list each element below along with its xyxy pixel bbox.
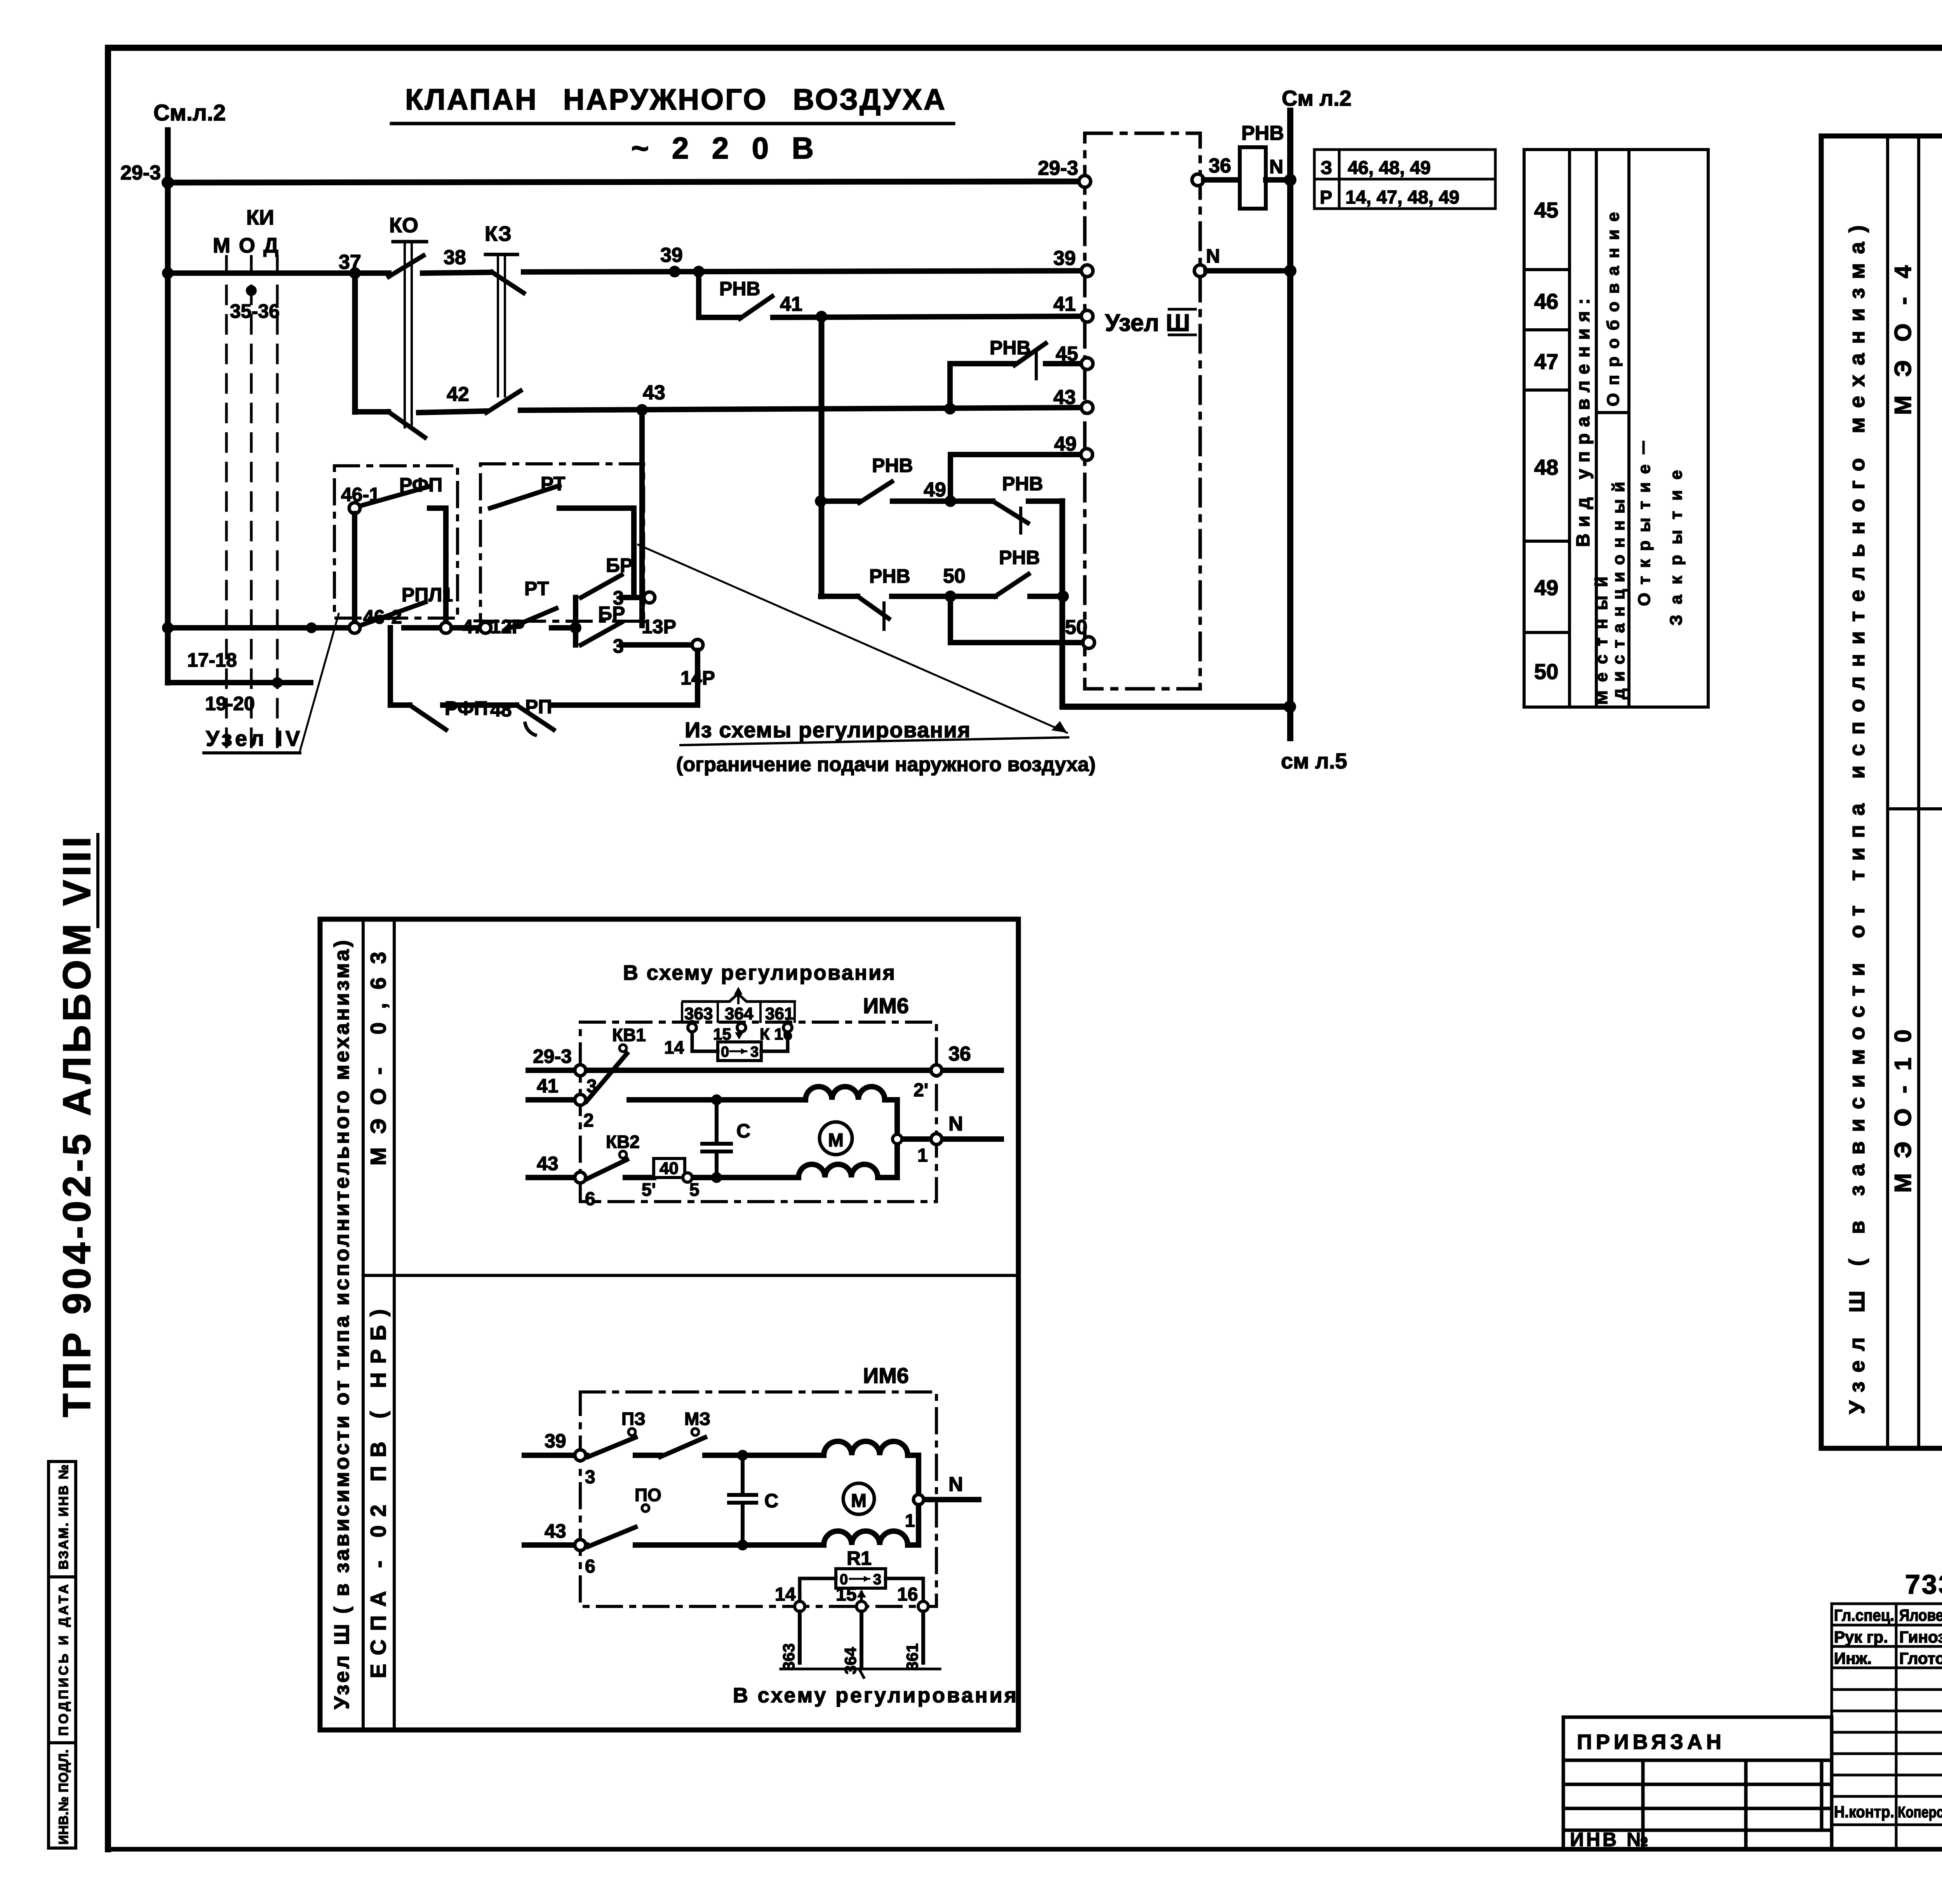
- svg-text:14: 14: [664, 1037, 684, 1057]
- svg-text:см л.5: см л.5: [1281, 749, 1347, 773]
- wire 49 circle row: [950, 452, 1087, 457]
- label Узел III: [1105, 310, 1190, 336]
- label КИ: [246, 206, 274, 229]
- wire lower tap rail: [168, 680, 311, 685]
- junction dot 45-43: [944, 403, 956, 415]
- junction dot mid rung: [306, 622, 317, 633]
- terminal 45 circle: [1081, 358, 1093, 369]
- svg-text:19-20: 19-20: [205, 693, 255, 714]
- label 15 ЕСПА: [836, 1584, 856, 1605]
- label М МЭО063: [828, 1130, 844, 1151]
- label 3 МЭО063: [586, 1076, 597, 1097]
- junction dot bus 46-2: [162, 622, 174, 634]
- label 3 ЕСПА: [585, 1467, 595, 1488]
- margin table: [49, 1462, 76, 1848]
- contact РНВ blade 45: [1015, 343, 1046, 365]
- junction dot rung left: [162, 267, 174, 279]
- svg-text:N: N: [1206, 245, 1220, 267]
- label 50 cell: [1534, 659, 1558, 684]
- terminal 46-2 circle: [349, 622, 360, 633]
- contact РТ lower blade: [505, 608, 556, 630]
- svg-text:2: 2: [583, 1110, 594, 1131]
- label 2prime МЭО063: [914, 1080, 928, 1101]
- wire top coil link МЭО063: [717, 1100, 897, 1139]
- svg-text:43: 43: [643, 381, 665, 404]
- wire bottom to sheet5: [1063, 704, 1290, 710]
- wire 50 lower corner: [948, 596, 953, 643]
- label КВ2: [606, 1132, 640, 1152]
- label РНВ 45: [990, 337, 1031, 359]
- box right divider: [1888, 807, 1942, 810]
- svg-text:13Р: 13Р: [642, 616, 676, 638]
- svg-text:5': 5': [642, 1179, 656, 1200]
- svg-text:35-36: 35-36: [230, 300, 280, 322]
- svg-text:ПЗ: ПЗ: [621, 1409, 646, 1429]
- svg-text:49: 49: [1534, 575, 1558, 600]
- terminal 47 circle: [440, 622, 451, 633]
- label 16 ЕСПА: [897, 1584, 918, 1605]
- label см л.5: [1281, 749, 1347, 773]
- svg-text:39: 39: [1053, 247, 1076, 270]
- svg-text:ИНВ.№ ПОДЛ.: ИНВ.№ ПОДЛ.: [56, 1749, 71, 1845]
- label 48: [490, 699, 512, 721]
- label 48 cell: [1534, 455, 1558, 479]
- contact РП arrow: [517, 705, 553, 735]
- svg-text:36: 36: [948, 1043, 971, 1065]
- label 46,48,49: [1348, 158, 1431, 178]
- svg-text:КВ1: КВ1: [612, 1025, 646, 1045]
- svg-text:РПЛ1: РПЛ1: [402, 584, 453, 606]
- svg-text:(ограничение подачи наружного: (ограничение подачи наружного воздуха): [676, 753, 1096, 776]
- svg-text:40: 40: [660, 1159, 679, 1178]
- svg-text:38: 38: [444, 246, 466, 269]
- terminal 13Р circle: [644, 592, 655, 603]
- svg-text:С: С: [736, 1120, 750, 1142]
- wire motor right ЕСПА: [919, 1500, 979, 1545]
- junction dot 41: [816, 311, 827, 322]
- label КВ1: [612, 1025, 646, 1045]
- arrow into resistor МЭО063: [735, 1023, 743, 1040]
- contact РНВ blade 50b: [995, 574, 1028, 596]
- svg-text:15: 15: [713, 1025, 731, 1043]
- dashed line М: [225, 256, 228, 754]
- svg-text:7333 - 09: 7333 - 09: [1905, 1569, 1942, 1599]
- contact РНВ blade 41: [740, 296, 772, 319]
- label 13Р: [642, 616, 676, 638]
- wire 43 row МЭО063: [528, 1175, 717, 1180]
- wire motor to N МЭО063: [897, 1136, 1001, 1142]
- terminal 6 circle ЕСПА: [575, 1540, 586, 1550]
- leader из схемы diagonal: [638, 545, 1067, 733]
- label 17-18: [187, 649, 237, 671]
- label МЭО-0,63: [366, 952, 390, 1165]
- svg-text:36: 36: [1209, 155, 1231, 177]
- contact КЗ lower blade: [486, 391, 520, 413]
- svg-text:БР: БР: [598, 603, 625, 624]
- label МОД: [213, 234, 287, 257]
- label РНВ 49b: [1002, 473, 1043, 495]
- label 46-2: [363, 606, 402, 628]
- wire terminal stubs ЕСПА: [800, 1611, 923, 1667]
- label БР upper: [606, 554, 633, 576]
- coil top МЭО063: [806, 1087, 885, 1100]
- junction dot 50 right: [1057, 591, 1069, 602]
- svg-text:Яловецкий: Яловецкий: [1899, 1606, 1942, 1624]
- svg-text:ИМ6: ИМ6: [863, 993, 909, 1018]
- svg-text:48: 48: [1534, 455, 1558, 479]
- contact РФП lower blade: [410, 705, 446, 730]
- svg-text:29-3: 29-3: [1038, 157, 1078, 179]
- label 46-1: [341, 484, 380, 505]
- svg-text:50: 50: [1534, 659, 1558, 684]
- label Рук гр: [1834, 1628, 1888, 1646]
- label МЭО-10: [1890, 1030, 1916, 1193]
- label РНВ coil: [1241, 122, 1284, 145]
- svg-text:39: 39: [660, 244, 683, 267]
- box ИМ6 ЕСПА dash-dot: [580, 1392, 936, 1606]
- contact КЗ pushbutton bars: [486, 254, 517, 396]
- wire БР upper row: [621, 595, 644, 600]
- label В схему регулирования ЕСПА: [733, 1684, 1016, 1707]
- svg-text:Глотова: Глотова: [1899, 1649, 1942, 1667]
- wire БР lower row: [621, 642, 692, 648]
- arrow 0-3 МЭО063: [730, 1048, 747, 1054]
- junction dot 37: [349, 267, 361, 279]
- junction dot 39: [669, 266, 680, 277]
- terminal 12Р circle: [480, 622, 491, 633]
- junction dot on О line: [246, 285, 257, 296]
- terminal N circle: [1194, 265, 1206, 277]
- junction dot 49 left: [815, 495, 827, 507]
- wire 41 row: [699, 316, 1087, 317]
- bracket ЕСПА: [781, 1669, 940, 1678]
- svg-text:50: 50: [943, 565, 966, 587]
- label К16: [760, 1025, 792, 1043]
- label 37: [339, 251, 361, 273]
- contact БР lower blade: [581, 622, 621, 645]
- svg-text:Инж.: Инж.: [1834, 1649, 1872, 1667]
- wire 12Р rung segment: [452, 625, 486, 631]
- svg-text:43: 43: [545, 1520, 566, 1542]
- pushbutton ПО circle: [642, 1505, 649, 1512]
- contact РПЛ1 blade: [360, 602, 425, 625]
- label 47 cell: [1534, 349, 1558, 374]
- svg-text:3: 3: [750, 1044, 759, 1060]
- label 0-3 МЭО063: [721, 1044, 759, 1060]
- capacitor С ЕСПА: [729, 1455, 756, 1545]
- label 5 МЭО063: [689, 1179, 700, 1200]
- label 35-36: [230, 300, 280, 322]
- wire 45 row: [950, 361, 1087, 366]
- svg-text:49: 49: [1054, 433, 1077, 455]
- node 29-3 label right: [1038, 157, 1078, 179]
- label 0-3 R1: [840, 1571, 881, 1588]
- contact КВ2 blade: [586, 1160, 627, 1179]
- wire 46-1 row to corner: [430, 505, 446, 511]
- junction dot 29-3: [162, 176, 174, 189]
- junction dot bottom ЕСПА: [737, 1540, 748, 1550]
- svg-text:РТ: РТ: [524, 578, 549, 599]
- junction dot 39b: [693, 266, 705, 277]
- svg-text:БР: БР: [606, 554, 633, 576]
- wire 37 vertical drop: [352, 273, 358, 412]
- svg-text:1: 1: [917, 1145, 928, 1166]
- contact ПО blade: [588, 1527, 635, 1547]
- svg-text:КЗ: КЗ: [485, 222, 512, 246]
- label Гл.спец: [1834, 1606, 1894, 1624]
- contact ПЗ blade: [588, 1437, 635, 1457]
- svg-text:14, 47, 48, 49: 14, 47, 48, 49: [1345, 187, 1460, 208]
- svg-text:КИ: КИ: [246, 206, 274, 229]
- svg-text:Рук гр.: Рук гр.: [1834, 1628, 1888, 1646]
- label Инж: [1834, 1649, 1872, 1667]
- svg-text:3: 3: [873, 1571, 881, 1588]
- terminal 15 circle ЕСПА: [856, 1601, 867, 1611]
- label Глотова: [1899, 1649, 1942, 1667]
- label 41 МЭО063: [537, 1075, 559, 1097]
- label 43 node: [643, 381, 665, 404]
- label ПО: [635, 1485, 661, 1505]
- label 39: [660, 244, 683, 267]
- label 363 ЕСПА: [780, 1643, 798, 1671]
- label 363 top: [684, 1004, 713, 1023]
- terminal strip ticks: [682, 1003, 795, 1022]
- label 36: [1209, 155, 1231, 177]
- terminal 16 circle ЕСПА: [918, 1601, 928, 1611]
- svg-text:15: 15: [836, 1584, 856, 1605]
- contact РНВ blade 49b: [993, 501, 1028, 523]
- svg-text:N: N: [948, 1473, 963, 1496]
- label 43 МЭО063: [537, 1153, 559, 1174]
- contact КЗ blade: [492, 272, 524, 293]
- svg-text:ПО: ПО: [635, 1485, 661, 1505]
- label РНВ 50a: [869, 565, 910, 587]
- svg-text:КВ2: КВ2: [606, 1132, 640, 1152]
- svg-text:РНВ: РНВ: [1002, 473, 1043, 495]
- wire bottom coil link МЭО063: [717, 1147, 897, 1178]
- label С ЕСПА: [764, 1490, 778, 1512]
- svg-text:14: 14: [775, 1584, 796, 1605]
- terminal 6 circle МЭО063: [575, 1172, 586, 1183]
- svg-text:R1: R1: [847, 1547, 872, 1569]
- terminal 14Р circle: [692, 639, 703, 650]
- wire N row: [1206, 268, 1290, 273]
- svg-text:49: 49: [924, 479, 946, 501]
- terminal 39 circle: [1081, 265, 1093, 277]
- label 361 ЕСПА: [903, 1643, 921, 1671]
- label РНВ 49a: [872, 455, 913, 476]
- label МЭО-4: [1890, 265, 1916, 415]
- box 40 МЭО063: [654, 1158, 685, 1178]
- svg-text:РНВ: РНВ: [999, 547, 1040, 568]
- svg-text:Гинозман: Гинозман: [1899, 1628, 1942, 1646]
- label С МЭО063: [736, 1120, 750, 1142]
- label 43 at box: [1053, 386, 1076, 409]
- table Привязан: [1563, 1717, 1832, 1849]
- wire 46-1 corner vertical: [443, 508, 449, 622]
- terminal 49 circle: [1081, 449, 1093, 460]
- margin album label: [55, 834, 99, 1417]
- box bottom-left col2: [393, 919, 396, 1730]
- label 5prime МЭО063: [642, 1179, 656, 1200]
- svg-text:Узел IV: Узел IV: [206, 726, 303, 751]
- junction dot N bus top: [1284, 174, 1296, 186]
- wire РТ lower row: [552, 625, 576, 631]
- node См.л.2 left feeder label: [153, 100, 226, 125]
- label Инв №: [1570, 1829, 1651, 1850]
- contact РНВ blade 50a: [858, 596, 889, 618]
- wire 49 feeder row: [821, 498, 1062, 504]
- label М ЕСПА: [851, 1491, 867, 1511]
- label В схему регулирования top: [623, 961, 895, 984]
- label РТ upper: [541, 473, 565, 495]
- label Вид управления: [1573, 298, 1594, 547]
- wire 39 row ЕСПА: [524, 1453, 743, 1458]
- label 39 ЕСПА: [545, 1430, 566, 1452]
- svg-text:46, 48, 49: 46, 48, 49: [1348, 158, 1431, 178]
- label ПЗ: [621, 1409, 646, 1429]
- svg-text:ПРИВЯЗАН: ПРИВЯЗАН: [1577, 1730, 1725, 1754]
- terminal 36 circle МЭО063: [931, 1065, 942, 1076]
- junction dot N bus: [1284, 265, 1296, 277]
- label З row: [1321, 158, 1332, 178]
- resistor R1 ЕСПА: [836, 1569, 886, 1588]
- svg-text:2': 2': [914, 1080, 928, 1101]
- terminal 14 circle ЕСПА: [795, 1601, 805, 1611]
- label Узел III rotated right: [1845, 225, 1869, 1414]
- pushbutton КВ1 circle: [619, 1045, 626, 1052]
- svg-text:1: 1: [905, 1510, 915, 1531]
- svg-text:Узел Ш: Узел Ш: [1105, 310, 1190, 336]
- terminal 3 circle ЕСПА: [575, 1450, 586, 1461]
- svg-text:ИМ6: ИМ6: [863, 1363, 909, 1388]
- contact РНВ blade 49a: [859, 482, 892, 503]
- terminal 43 circle: [1081, 402, 1093, 413]
- svg-text:42: 42: [447, 383, 469, 406]
- label 46 cell: [1534, 289, 1558, 314]
- svg-text:48: 48: [490, 699, 512, 721]
- wire РТ upper row: [559, 505, 634, 511]
- label Гинозман: [1899, 1628, 1942, 1646]
- svg-text:363: 363: [684, 1004, 713, 1023]
- svg-text:45: 45: [1534, 198, 1558, 222]
- label 3 upper: [613, 587, 624, 609]
- svg-text:Гл.спец.: Гл.спец.: [1834, 1606, 1894, 1624]
- svg-text:Коперсткова: Коперсткова: [1898, 1804, 1942, 1821]
- label 7333-09: [1905, 1569, 1942, 1599]
- arrow up into R1 ЕСПА: [857, 1590, 866, 1601]
- label 12Р: [490, 616, 525, 638]
- label 38: [444, 246, 466, 269]
- svg-text:См.л.2: См.л.2: [153, 100, 226, 125]
- svg-text:41: 41: [537, 1075, 559, 1097]
- wire 29-3 left bus vertical: [165, 130, 171, 683]
- box bottom-left outer: [320, 919, 1018, 1730]
- label 43 ЕСПА: [545, 1520, 566, 1542]
- terminal 29-3 circle МЭО063: [575, 1065, 586, 1076]
- contact КЗ label: [485, 222, 512, 246]
- resistor 0-3 МЭО063: [718, 1042, 761, 1061]
- wire 41 row МЭО063: [528, 1097, 717, 1103]
- motor М МЭО063: [820, 1122, 852, 1155]
- bracket regulation top: [683, 994, 795, 1002]
- svg-text:Из схемы регулирования: Из схемы регулирования: [685, 718, 970, 742]
- svg-text:17-18: 17-18: [187, 649, 237, 671]
- wire bottom coil corner ЕСПА: [908, 1542, 919, 1548]
- wire РНВ 41 branch vertical: [696, 272, 701, 317]
- svg-text:361: 361: [903, 1643, 921, 1671]
- pushbutton КВ2 circle: [619, 1151, 626, 1158]
- wire 43 vertical drop: [639, 410, 645, 625]
- label Яловецкий: [1899, 1606, 1942, 1624]
- junction dot B МЭО063: [711, 1172, 722, 1183]
- label 14 ЕСПА: [775, 1584, 796, 1605]
- label Местный: [1592, 577, 1611, 705]
- svg-text:См л.2: См л.2: [1282, 86, 1352, 110]
- dashed line Д: [276, 256, 279, 754]
- label 364 ЕСПА: [841, 1647, 860, 1674]
- svg-text:6: 6: [585, 1189, 595, 1209]
- label N ЕСПА: [948, 1473, 963, 1496]
- svg-text:РНВ: РНВ: [872, 455, 913, 476]
- svg-text:3: 3: [585, 1467, 595, 1488]
- label 45: [1056, 343, 1078, 365]
- label Привязан: [1577, 1730, 1725, 1754]
- wire resistor links МЭО063: [692, 1022, 788, 1051]
- label 364 top: [725, 1004, 753, 1023]
- wire top to coil ЕСПА: [743, 1453, 824, 1458]
- label ИМ6 ЕСПА: [863, 1363, 909, 1388]
- terminal 41 circle: [1081, 310, 1093, 322]
- label Открытие: [1635, 439, 1654, 606]
- svg-text:РФП: РФП: [445, 697, 488, 719]
- box right МЭО outer: [1821, 136, 1942, 1448]
- label 50 upper: [943, 565, 966, 587]
- svg-text:Н.контр.: Н.контр.: [1834, 1803, 1894, 1821]
- label 41 node: [780, 293, 802, 315]
- contact РНВ tick 45: [1035, 352, 1038, 379]
- junction dot top ЕСПА: [737, 1450, 748, 1461]
- label 14 КВ row: [664, 1037, 684, 1057]
- label ЕСПА-02ПВ: [366, 1309, 390, 1678]
- coil bottom МЭО063: [799, 1164, 878, 1178]
- contact РФП blade: [360, 486, 430, 506]
- wire 36 to РНВ coil: [1204, 177, 1240, 183]
- wire 50 lower row: [950, 640, 1084, 645]
- label N МЭО063: [948, 1113, 963, 1135]
- box РФП dash-dot: [334, 466, 458, 618]
- wire 29-3 top rail: [168, 181, 1085, 183]
- svg-text:РНВ: РНВ: [1241, 122, 1284, 145]
- contact РНВ tick 50a: [882, 603, 886, 629]
- terminal 36 circle: [1192, 174, 1204, 186]
- label МЗ: [684, 1409, 710, 1429]
- label 361 top: [765, 1004, 794, 1023]
- svg-text:КО: КО: [389, 214, 418, 237]
- box ИМ6 МЭО063 dash-dot: [580, 1022, 936, 1202]
- contact МЗ blade: [660, 1437, 705, 1457]
- label 15 КВ row: [713, 1025, 731, 1043]
- box Узел III dash-dot: [1085, 133, 1200, 689]
- label 1 МЭО063: [917, 1145, 928, 1166]
- svg-text:16: 16: [897, 1584, 918, 1605]
- svg-text:46-2: 46-2: [363, 606, 402, 628]
- node 29-3 label: [120, 162, 161, 184]
- contact РТ upper blade: [490, 486, 559, 508]
- label Из схемы регулирования: [685, 718, 970, 742]
- label 39 at box: [1053, 247, 1076, 270]
- terminal 46-1 circle: [349, 503, 360, 514]
